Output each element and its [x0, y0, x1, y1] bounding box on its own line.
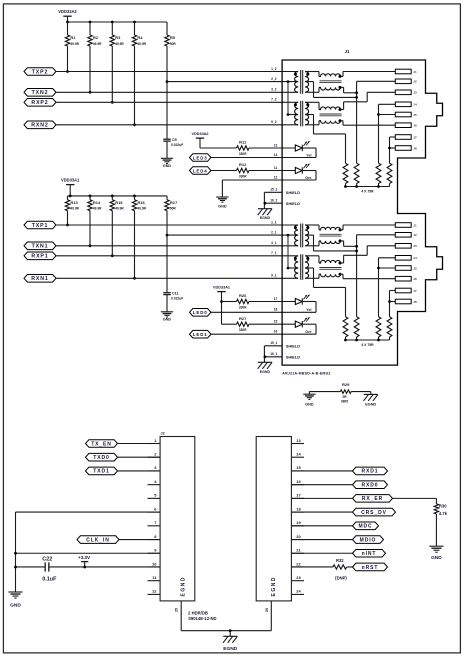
- svg-text:R13: R13: [70, 200, 78, 205]
- wire VDD33A2 to R11: [200, 147, 237, 149]
- svg-text:330R: 330R: [239, 305, 247, 309]
- svg-text:LED1: LED1: [193, 332, 208, 337]
- port tag RXP2: [24, 99, 56, 107]
- svg-text:J7: J7: [413, 135, 417, 139]
- svg-text:25: 25: [265, 608, 269, 612]
- svg-text:RXD0: RXD0: [362, 482, 379, 488]
- svg-text:10: 10: [152, 561, 157, 566]
- port tag TXN2: [24, 89, 56, 97]
- pin 7 J2: [148, 525, 161, 527]
- wire center-tap link: [287, 235, 289, 268]
- svg-text:2 HDR/DB: 2 HDR/DB: [188, 610, 208, 615]
- svg-text:R27: R27: [239, 316, 247, 321]
- wire net J2 termination: [356, 81, 358, 163]
- signal tag nRST: [353, 563, 388, 571]
- svg-text:12: 12: [274, 175, 278, 179]
- svg-text:R14: R14: [93, 200, 101, 205]
- svg-text:49.9R: 49.9R: [93, 42, 102, 46]
- svg-text:11: 11: [274, 166, 278, 170]
- svg-text:GND: GND: [305, 402, 314, 406]
- svg-text:50R: 50R: [170, 207, 177, 211]
- wire choke-b bottom to J6: [340, 120, 343, 122]
- pin 16 J2: [291, 484, 304, 486]
- svg-text:VDD33A1: VDD33A1: [61, 177, 80, 182]
- wire net J7/J8 termination: [390, 136, 396, 138]
- svg-text:4 X 75R: 4 X 75R: [361, 343, 374, 347]
- port tag RXN1: [24, 275, 56, 283]
- transformer T1a core: [300, 224, 302, 248]
- svg-text:25: 25: [175, 608, 179, 612]
- svg-text:R12: R12: [239, 162, 247, 167]
- signal tag TXD0: [86, 453, 118, 461]
- connector pin box J2 port 1: [395, 233, 411, 238]
- common-mode choke L2a bottom winding: [305, 91, 319, 93]
- wire pin6 to rail: [16, 511, 161, 513]
- wire pin15: [291, 470, 352, 472]
- pin 19 J2: [291, 525, 304, 527]
- transformer T1b core: [300, 254, 302, 279]
- LED tag LED3: [189, 154, 211, 162]
- svg-text:Gre: Gre: [305, 330, 311, 334]
- svg-text:RXD1: RXD1: [362, 469, 379, 475]
- svg-text:R32: R32: [336, 558, 344, 563]
- svg-text:LED0: LED0: [193, 310, 208, 315]
- transformer T1b primary: [295, 256, 299, 278]
- svg-text:24: 24: [296, 589, 301, 594]
- signal tag RXD0: [353, 481, 388, 489]
- svg-text:R3: R3: [115, 35, 121, 40]
- svg-text:16_2: 16_2: [270, 199, 277, 203]
- svg-text:R5: R5: [170, 35, 176, 40]
- svg-text:GND: GND: [431, 555, 442, 561]
- wire pin20: [291, 539, 352, 541]
- pin 3 J2: [148, 470, 161, 472]
- resistor 75R #3 port 1: [376, 317, 381, 337]
- svg-text:J5: J5: [413, 113, 417, 117]
- svg-text:14: 14: [296, 452, 301, 457]
- svg-text:R11: R11: [239, 140, 247, 145]
- svg-text:1_2: 1_2: [271, 67, 277, 71]
- wire VDD33A1 bus: [68, 195, 168, 197]
- LED tag LED0: [189, 309, 211, 317]
- common-mode choke L1b top winding: [305, 255, 319, 257]
- resistor 75R #4 port 2: [387, 163, 392, 183]
- svg-text:RX_ER: RX_ER: [362, 496, 383, 502]
- svg-text:J6: J6: [413, 277, 417, 281]
- wire net J4/J5 termination: [379, 103, 396, 105]
- resistor R27 330R: [237, 322, 250, 326]
- wire RXN1: [56, 277, 298, 279]
- svg-text:49.9R: 49.9R: [70, 207, 79, 211]
- wire net J4/J5 termination: [379, 257, 396, 259]
- pin 23 J2: [291, 580, 304, 582]
- wire choke-a bottom: [340, 86, 344, 88]
- wire pin22 to R32: [291, 566, 333, 568]
- signal tag RXD1: [353, 467, 388, 475]
- connector pin box J5 port 1: [395, 266, 411, 271]
- ground LED section: [216, 196, 228, 198]
- pin 5 J2: [148, 497, 161, 499]
- wire shield bracket: [263, 346, 265, 363]
- transformer T1a secondary: [305, 225, 309, 246]
- svg-text:nRST: nRST: [362, 565, 379, 571]
- wire center-tap to C5: [166, 82, 168, 140]
- svg-text:13: 13: [274, 143, 278, 147]
- svg-text:2_1: 2_1: [271, 231, 277, 235]
- ground below C11: [161, 311, 173, 313]
- wire RX center tap: [288, 114, 298, 116]
- LED green port 1: [295, 321, 302, 327]
- svg-text:2_2: 2_2: [271, 77, 277, 81]
- svg-text:9_1: 9_1: [271, 274, 277, 278]
- connector pin box J8 port 1: [395, 299, 411, 304]
- svg-text:R30: R30: [439, 504, 447, 509]
- resistor 75R #1 port 1: [343, 317, 348, 337]
- connector pin box J4 port 2: [395, 102, 411, 107]
- wire R30 to GND: [435, 514, 437, 546]
- svg-text:S9014E-12-ND: S9014E-12-ND: [188, 616, 216, 621]
- svg-text:R4: R4: [137, 35, 143, 40]
- ground rail GND: [8, 591, 22, 593]
- signal tag RX_ER: [353, 495, 393, 503]
- svg-text:J3: J3: [413, 244, 417, 248]
- svg-text:16_1: 16_1: [270, 352, 277, 356]
- svg-text:20: 20: [296, 534, 301, 539]
- svg-text:15: 15: [296, 465, 301, 470]
- wire LED4 to R12: [211, 170, 237, 172]
- shield pin 16: [264, 356, 282, 358]
- svg-text:VDD33A1: VDD33A1: [213, 285, 230, 289]
- svg-text:J5: J5: [413, 266, 417, 270]
- port tag RXN2: [24, 121, 56, 129]
- svg-text:GND: GND: [163, 317, 172, 321]
- svg-text:EGND: EGND: [260, 370, 271, 374]
- wire choke-b top to J3: [340, 262, 344, 264]
- resistor R29 0R: [340, 390, 351, 394]
- resistor R14: [89, 196, 91, 200]
- wire R29 net: [309, 391, 340, 393]
- wire RXP1: [56, 255, 298, 257]
- svg-text:TXP2: TXP2: [32, 69, 49, 75]
- svg-text:3_1: 3_1: [271, 241, 277, 245]
- wire LED cathode to GND: [221, 180, 223, 197]
- wire pin18: [291, 511, 352, 513]
- wire net J2 termination: [356, 235, 358, 317]
- transformer T2b core: [300, 101, 302, 127]
- LED green port 2: [295, 167, 302, 173]
- wire center-tap to C11: [166, 235, 168, 293]
- wire pin10 to header: [49, 566, 160, 568]
- port tag TXN1: [24, 242, 56, 250]
- pin 8 J2: [148, 539, 161, 541]
- port tag TXP2: [24, 68, 56, 76]
- connector pin box J7 port 2: [395, 135, 411, 140]
- resistor R17: [166, 196, 168, 200]
- signal tag TXD1: [86, 467, 118, 475]
- svg-text:49.9R: 49.9R: [115, 207, 124, 211]
- pin 13 J2: [291, 443, 304, 445]
- svg-text:R2: R2: [93, 35, 99, 40]
- connector pin box J1 port 2: [395, 69, 411, 74]
- pin 1 J2: [148, 443, 161, 445]
- svg-text:15_1: 15_1: [270, 341, 277, 345]
- svg-text:49.9R: 49.9R: [137, 42, 146, 46]
- signal tag TX_EN: [86, 440, 118, 448]
- connector pin box J8 port 2: [395, 146, 411, 151]
- svg-text:GND: GND: [218, 205, 227, 209]
- connector pin box J7 port 1: [395, 288, 411, 293]
- svg-text:16: 16: [274, 330, 278, 334]
- wire RXN2: [56, 124, 298, 126]
- svg-text:330R: 330R: [239, 174, 247, 178]
- common-mode choke L1a bottom winding: [305, 245, 319, 247]
- svg-text:0.022uF: 0.022uF: [171, 297, 183, 301]
- resistor 75R #4 port 1: [387, 317, 392, 337]
- LED tag LED4: [189, 167, 211, 175]
- resistor 75R #1 port 2: [343, 163, 348, 183]
- svg-text:J2: J2: [413, 80, 417, 84]
- svg-text:TXD0: TXD0: [93, 455, 109, 461]
- svg-text:50R: 50R: [170, 42, 177, 46]
- wire left block to EGND: [180, 601, 182, 631]
- chassis ground shield: [258, 208, 272, 210]
- signal tag MDC: [353, 522, 379, 530]
- pin 17 J2: [291, 497, 304, 499]
- wire pin10 segment: [16, 566, 46, 568]
- wire TX secondary center tap: [305, 81, 314, 83]
- svg-text:15_2: 15_2: [270, 188, 277, 192]
- wire TXD1: [118, 470, 161, 472]
- svg-text:J6: J6: [413, 124, 417, 128]
- svg-text:R26: R26: [239, 293, 247, 298]
- connector pin box J3 port 1: [395, 244, 411, 249]
- transformer T1a primary: [295, 225, 299, 246]
- connector pin box J2 port 2: [395, 79, 411, 84]
- wire termination rail: [346, 186, 390, 188]
- connector pin box J3 port 2: [395, 90, 411, 95]
- svg-text:LED3: LED3: [193, 155, 208, 160]
- svg-text:23: 23: [296, 575, 301, 580]
- svg-text:RXN2: RXN2: [31, 123, 48, 129]
- resistor R12 330R: [237, 168, 250, 172]
- common-mode choke L2b bottom winding: [305, 124, 319, 126]
- resistor R5: [166, 22, 168, 35]
- svg-text:49.9R: 49.9R: [115, 42, 124, 46]
- resistor R2: [89, 22, 91, 35]
- svg-text:J2: J2: [413, 233, 417, 237]
- svg-text:CRS_DV: CRS_DV: [361, 510, 387, 516]
- svg-text:TXD1: TXD1: [93, 469, 109, 475]
- header J2 right block: [256, 437, 291, 601]
- ground R29: [308, 392, 310, 395]
- svg-text:MDC: MDC: [358, 524, 372, 530]
- svg-text:J1: J1: [413, 223, 417, 227]
- wire TXN1: [56, 245, 298, 247]
- wire RX secondary center tap: [305, 114, 314, 116]
- svg-text:49.9R: 49.9R: [70, 42, 79, 46]
- chassis ground shield: [258, 361, 272, 363]
- transformer T2a primary: [295, 72, 299, 93]
- pin 18 J2: [291, 511, 304, 513]
- svg-text:9_2: 9_2: [271, 120, 277, 124]
- wire pin19: [291, 525, 352, 527]
- wire RX center tap: [288, 267, 298, 269]
- resistor R32 (DNP): [333, 565, 347, 569]
- svg-text:18: 18: [274, 308, 278, 312]
- svg-text:0805: 0805: [341, 399, 348, 403]
- svg-text:RXP2: RXP2: [31, 100, 48, 106]
- wire RX secondary center tap: [305, 267, 314, 269]
- svg-text:49.9R: 49.9R: [137, 207, 146, 211]
- common-mode choke L1a top winding: [305, 224, 319, 226]
- wire TXP1: [56, 224, 298, 226]
- svg-text:RXP1: RXP1: [31, 254, 48, 260]
- svg-text:J2: J2: [161, 432, 165, 436]
- pin 12 J2: [148, 593, 161, 595]
- wire choke-a top to J1: [340, 75, 343, 77]
- svg-text:TXN1: TXN1: [32, 244, 49, 250]
- shield pin 16: [264, 202, 282, 204]
- svg-text:J3: J3: [413, 91, 417, 95]
- wire net J7/J8 termination: [390, 290, 396, 292]
- pin 15 J2: [291, 470, 304, 472]
- svg-text:15: 15: [274, 320, 278, 324]
- connector pin box J6 port 1: [395, 276, 411, 281]
- svg-text:VDD33A2: VDD33A2: [58, 9, 77, 14]
- svg-text:GND: GND: [10, 602, 21, 608]
- resistor R26 330R: [237, 299, 250, 303]
- signal tag nINT: [353, 549, 386, 557]
- wire shield bracket: [263, 192, 265, 208]
- resistor R1: [67, 22, 69, 35]
- svg-text:J4: J4: [413, 103, 417, 107]
- svg-text:4 X 75R: 4 X 75R: [361, 190, 374, 194]
- svg-text:14: 14: [274, 153, 278, 157]
- svg-text:R15: R15: [115, 200, 123, 205]
- svg-text:R1: R1: [70, 35, 76, 40]
- svg-text:3_2: 3_2: [271, 88, 277, 92]
- wire RX_ER to R30: [393, 497, 437, 499]
- common-mode choke L2b top winding: [305, 101, 319, 103]
- svg-text:17: 17: [296, 493, 301, 498]
- wire pin16: [291, 484, 352, 486]
- wire right block to EGND: [270, 601, 272, 631]
- svg-text:TX_EN: TX_EN: [91, 441, 112, 447]
- pin 21 J2: [291, 552, 304, 554]
- resistor R4: [134, 22, 136, 35]
- common-mode choke L1b core: [320, 267, 342, 269]
- shield pin 15: [264, 191, 282, 193]
- svg-text:TXP1: TXP1: [32, 223, 49, 229]
- common-mode choke L2a core: [320, 80, 342, 82]
- pin 10 J2: [148, 566, 161, 568]
- svg-text:R17: R17: [170, 200, 178, 205]
- svg-text:J4: J4: [413, 256, 417, 260]
- svg-text:C11: C11: [172, 292, 179, 296]
- svg-text:19: 19: [296, 520, 301, 525]
- wire choke-b top to J3: [340, 109, 344, 111]
- connector J1 outline: [282, 60, 442, 365]
- common-mode choke L1b bottom winding: [305, 277, 319, 279]
- wire TX center tap: [167, 234, 298, 236]
- svg-text:Yel: Yel: [306, 153, 311, 157]
- svg-text:4.7k: 4.7k: [439, 511, 448, 516]
- pin 11 J2: [148, 580, 161, 582]
- svg-text:0.022uF: 0.022uF: [171, 143, 183, 147]
- wire VDD33A2 bus: [68, 21, 168, 23]
- svg-text:GND: GND: [163, 164, 172, 168]
- svg-text:16: 16: [296, 479, 301, 484]
- wire TXN2: [56, 91, 298, 93]
- capacitor C22 0.1uF: [44, 562, 46, 571]
- svg-text:EGND: EGND: [260, 216, 271, 220]
- pin 9 J2: [148, 552, 161, 554]
- connector pin box J1 port 1: [395, 223, 411, 228]
- svg-text:J8: J8: [413, 146, 417, 150]
- svg-text:330R: 330R: [239, 328, 247, 332]
- chassis ground EGND bottom: [229, 631, 231, 637]
- wire TXP2: [56, 71, 298, 73]
- resistor R3: [111, 22, 113, 35]
- connector pin box J6 port 2: [395, 123, 411, 128]
- transformer T2a core: [300, 70, 302, 94]
- LED yellow port 1: [295, 298, 302, 304]
- svg-text:C22: C22: [42, 556, 52, 562]
- ground R30: [429, 545, 443, 547]
- svg-text:18: 18: [296, 506, 301, 511]
- pin 14 J2: [291, 456, 304, 458]
- wire center-tap link: [287, 82, 289, 115]
- svg-text:22: 22: [296, 561, 301, 566]
- resistor R13: [67, 196, 69, 200]
- wire pin17: [291, 497, 352, 499]
- transformer T2b secondary: [305, 102, 309, 125]
- resistor 75R #2 port 2: [354, 163, 359, 183]
- svg-text:ARJ21A-MBSD-A-B-EMU2: ARJ21A-MBSD-A-B-EMU2: [282, 372, 330, 376]
- wire pin21: [291, 552, 352, 554]
- svg-text:J7: J7: [413, 289, 417, 293]
- pin 20 J2: [291, 539, 304, 541]
- svg-text:7_1: 7_1: [271, 251, 277, 255]
- pin 2 J2: [148, 456, 161, 458]
- svg-text:SHIELD: SHIELD: [286, 343, 300, 348]
- svg-text:(DNP): (DNP): [335, 575, 347, 580]
- pin 22 J2: [291, 566, 304, 568]
- svg-text:LED4: LED4: [193, 168, 208, 173]
- pin 6 J2: [148, 511, 161, 513]
- svg-text:Yel: Yel: [306, 308, 311, 312]
- svg-text:J8: J8: [413, 300, 417, 304]
- shield pin 15: [264, 345, 282, 347]
- svg-text:7_2: 7_2: [271, 98, 277, 102]
- svg-text:330R: 330R: [239, 152, 247, 156]
- capacitor C11 0.022uF: [163, 292, 170, 294]
- port tag RXP1: [24, 252, 56, 260]
- signal tag CRS_DV: [353, 508, 396, 516]
- transformer T1b secondary: [305, 256, 309, 278]
- svg-text:EGND: EGND: [181, 576, 187, 596]
- resistor R16: [134, 196, 136, 200]
- svg-text:0.1uF: 0.1uF: [42, 576, 57, 582]
- connector pin box J5 port 2: [395, 112, 411, 117]
- svg-text:EGND: EGND: [223, 646, 237, 652]
- wire CLK_IN: [119, 539, 160, 541]
- svg-text:+3.3V: +3.3V: [78, 555, 91, 560]
- wire RXP2: [56, 101, 298, 103]
- wire TXD0: [118, 456, 161, 458]
- svg-text:SHIELD: SHIELD: [286, 354, 300, 359]
- svg-text:CLK_IN: CLK_IN: [86, 537, 109, 543]
